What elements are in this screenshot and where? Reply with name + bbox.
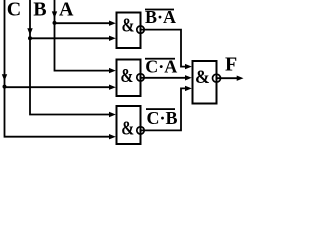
gate U1 inversion bubble — [137, 26, 144, 33]
wire B vertical with elbow to gate3 input 1 — [30, 0, 111, 115]
arrowhead gate3 input 2 — [109, 134, 116, 139]
arrowhead final gate input 2 — [185, 75, 192, 80]
wire gate1 output to final gate input 1 — [141, 30, 187, 67]
net label NOT(C*B) overline — [146, 108, 175, 110]
svg-text:C·B: C·B — [147, 108, 178, 128]
svg-text:F: F — [225, 54, 237, 76]
wire gate3 output to final gate input 3 — [141, 88, 187, 130]
wire B to gate1 input 2 — [30, 37, 111, 39]
arrowhead gate2 input 2 — [109, 85, 116, 90]
direction arrow on C line — [2, 74, 7, 81]
junction dot A — [53, 21, 57, 25]
svg-text:&: & — [120, 64, 133, 86]
direction arrow on B line — [27, 28, 32, 35]
arrowhead gate1 input 2 — [109, 36, 116, 41]
gate U3 inversion bubble — [137, 127, 144, 134]
arrowhead final gate input 3 — [185, 86, 192, 91]
svg-text:&: & — [195, 66, 210, 87]
svg-text:C: C — [7, 0, 21, 21]
wire C to gate2 input 2 — [5, 86, 112, 88]
wire A vertical with elbow to gate2 input 1 — [55, 0, 112, 71]
svg-text:&: & — [122, 14, 135, 36]
arrowhead gate1 input 1 — [109, 21, 116, 26]
arrowhead gate2 input 1 — [109, 68, 116, 73]
direction arrow on A line — [52, 11, 57, 18]
wire gate2 output to final gate input 2 — [141, 77, 187, 79]
svg-text:A: A — [59, 0, 74, 21]
junction dot C — [3, 85, 7, 89]
junction dot B — [28, 36, 32, 40]
final gate U4 (3-input NAND) box — [193, 61, 217, 104]
gate U1 (NAND B,A) box — [117, 13, 141, 49]
gate U3 (NAND C,B) box — [117, 106, 141, 144]
svg-text:&: & — [121, 117, 134, 139]
net label NOT(C*A) overline — [145, 58, 175, 60]
svg-text:B: B — [33, 0, 46, 21]
gate U2 (NAND C,A) box — [117, 60, 141, 97]
wire C vertical with elbow to gate3 input 2 — [5, 0, 112, 137]
gate U2 inversion bubble — [137, 74, 144, 81]
wire A to gate1 input 1 — [55, 22, 112, 24]
arrowhead output F — [237, 76, 244, 81]
arrowhead final gate input 1 — [185, 64, 192, 69]
wire F output — [217, 77, 239, 79]
final gate U4 inversion bubble — [213, 74, 221, 82]
arrowhead gate3 input 1 — [109, 112, 116, 117]
net label NOT(B*A) overline — [145, 9, 174, 11]
